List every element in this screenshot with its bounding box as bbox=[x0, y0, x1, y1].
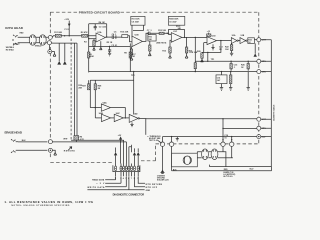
plug J1 read/write head bbox=[12, 35, 20, 46]
rail write head A bbox=[74, 43, 76, 136]
svg-text:(SEE TEXT): (SEE TEXT) bbox=[156, 43, 166, 45]
node interstage 3 bbox=[167, 33, 168, 34]
wire U1B fb right bbox=[133, 25, 143, 30]
svg-text:GND: GND bbox=[146, 190, 151, 192]
svg-text:20K: 20K bbox=[78, 88, 82, 90]
wire U3A to U3B bbox=[238, 40, 240, 42]
motor box bbox=[172, 153, 198, 167]
ground R25b bbox=[247, 72, 250, 91]
wire motor bottom terminal bbox=[197, 157, 201, 159]
callout record arrow bbox=[68, 147, 72, 151]
wire +5 drop U3 bbox=[254, 43, 256, 53]
svg-text:R1 100K: R1 100K bbox=[54, 32, 62, 34]
arrow chassis A bbox=[161, 170, 164, 173]
svg-text:1M: 1M bbox=[132, 56, 135, 58]
op-amp U1A feedback top wire bbox=[89, 23, 107, 25]
bracket +5V bbox=[105, 177, 121, 184]
wire shield on-board bbox=[51, 42, 77, 44]
svg-text:U1A: U1A bbox=[97, 31, 102, 34]
arrow conn 1 bbox=[114, 152, 117, 155]
ground R3 bbox=[93, 48, 96, 50]
node threshold b bbox=[231, 136, 232, 137]
wire write head bottom 1 bbox=[71, 140, 124, 163]
svg-text:U4D: U4D bbox=[133, 112, 138, 115]
ground chassis at input bbox=[52, 52, 56, 57]
wire U4C out bbox=[123, 117, 129, 119]
bracket READ DATA bbox=[105, 177, 115, 180]
node U4A input bbox=[95, 107, 96, 108]
wire threshold to pin bbox=[232, 136, 257, 138]
node C1 junction bbox=[64, 35, 65, 36]
node U1C out fb bbox=[184, 37, 185, 38]
svg-text:R11 150K: R11 150K bbox=[132, 19, 141, 21]
op-amp U1B bbox=[132, 36, 143, 47]
PCB dashed border top bbox=[50, 11, 258, 13]
arrow shield B bbox=[63, 61, 67, 65]
feedback box B1 top wire bbox=[89, 46, 131, 48]
connector pin stubs bbox=[116, 172, 139, 177]
arrow shield A bbox=[57, 61, 61, 65]
pin circle RD1 bbox=[257, 38, 261, 42]
crossing circle X4 bbox=[230, 142, 234, 146]
pin circle RD3 bbox=[257, 70, 261, 74]
resistor R27 hanging bbox=[88, 84, 90, 90]
node mid3 x223 bbox=[222, 139, 223, 140]
svg-text:CASSETTE CABLE: CASSETTE CABLE bbox=[272, 104, 275, 121]
ground C5 bbox=[108, 53, 111, 56]
svg-text:C8 .0047: C8 .0047 bbox=[132, 20, 139, 23]
wire x231 column bbox=[231, 137, 233, 158]
arrow conn 3 bbox=[137, 152, 140, 155]
wire U4A input bbox=[90, 107, 101, 109]
cable loom line bbox=[270, 40, 272, 167]
wire shield drop B bbox=[64, 43, 66, 61]
node U3 input bbox=[231, 40, 232, 41]
resistor R20 bbox=[202, 51, 204, 53]
node mid2 x223 bbox=[222, 128, 223, 129]
svg-text:86-7 PLUG: 86-7 PLUG bbox=[223, 176, 233, 178]
inverter U4B bbox=[102, 114, 111, 121]
resistor R25 column bbox=[247, 61, 249, 63]
bracket WRITE DATA bbox=[105, 177, 126, 187]
wire U1A output bbox=[105, 36, 112, 38]
pin numbers bbox=[115, 177, 139, 180]
svg-text:7: 7 bbox=[131, 178, 132, 180]
resistor R14 to ground bbox=[149, 45, 151, 51]
wire feedback left bbox=[88, 24, 90, 73]
ground R9 bbox=[130, 58, 133, 61]
svg-text:R4 1M: R4 1M bbox=[99, 21, 105, 24]
wire shield pin down bbox=[49, 45, 51, 50]
resistor R6 bbox=[74, 136, 79, 141]
resistor R22 bbox=[230, 45, 232, 51]
resistor R10 bbox=[122, 35, 128, 38]
wire U1C minus bbox=[169, 33, 172, 35]
pin sockets bbox=[115, 166, 140, 171]
svg-text:U1D: U1D bbox=[212, 35, 217, 37]
crossing circle X3 bbox=[221, 142, 225, 146]
svg-text:10K: 10K bbox=[225, 49, 229, 51]
ground U4D bbox=[130, 122, 133, 126]
wire RD long to pin bbox=[140, 117, 257, 119]
svg-text:TEXT 5-24: TEXT 5-24 bbox=[149, 139, 158, 142]
inverter U4A bbox=[101, 104, 110, 111]
wire U4B out bbox=[111, 117, 115, 119]
wire +5V column bbox=[120, 140, 122, 164]
node mid x223 bbox=[222, 118, 223, 119]
connector oval M1 bbox=[202, 149, 209, 160]
connector oval P2 bbox=[39, 35, 46, 45]
wire mid column x223 bbox=[222, 119, 224, 142]
wire U2 input bbox=[217, 40, 232, 42]
ground R26 bbox=[229, 88, 232, 91]
PCB dashed border bottom step bbox=[155, 144, 157, 161]
wire U4B input bbox=[95, 117, 101, 119]
svg-text:C2 .022: C2 .022 bbox=[99, 26, 107, 28]
wire delay leads bbox=[221, 72, 223, 88]
wire U1C plus leg bbox=[170, 40, 171, 47]
pin circle RD2 bbox=[257, 59, 261, 63]
inverter U4D bbox=[129, 114, 138, 122]
wire R9 leads bbox=[131, 46, 133, 57]
buffer U3A bbox=[231, 38, 237, 44]
crossing circle X2 bbox=[169, 142, 173, 146]
resistor R28 hanging bbox=[94, 84, 96, 90]
wire conn drop e bbox=[128, 147, 130, 164]
wire motor right bottom bbox=[218, 157, 233, 159]
wire X1 down bbox=[162, 146, 164, 170]
node C5 bbox=[109, 46, 110, 47]
bracket MTR OFF bbox=[135, 177, 146, 187]
wire motor return long bbox=[210, 166, 272, 168]
node threshold a bbox=[171, 136, 172, 137]
wire U1D fb loop bbox=[204, 41, 221, 53]
resistor R19 bbox=[207, 34, 211, 37]
node +12V junction bbox=[69, 35, 70, 36]
pin circle MTR3 bbox=[257, 135, 261, 139]
pin circle MTR2 bbox=[257, 126, 261, 130]
wire to U1B plus bbox=[128, 36, 132, 42]
PCB dashed border bottom-right bbox=[156, 143, 259, 145]
wire erase gnd bbox=[52, 150, 55, 152]
wire interstage 1 bbox=[116, 36, 122, 38]
resistor R3 bbox=[93, 41, 95, 47]
wire R12 to U1C bbox=[164, 33, 171, 34]
capacitor C5 bbox=[108, 47, 111, 54]
wire write head bottom 2 bbox=[125, 142, 127, 164]
node row2 c bbox=[248, 61, 249, 62]
wire U1B fb left bbox=[131, 25, 133, 37]
PCB dashed border left bbox=[49, 12, 51, 159]
connector body bbox=[113, 165, 140, 171]
resistor R12 bbox=[159, 32, 164, 34]
wire U1C output bbox=[182, 36, 207, 38]
svg-text:ERASE HEAD: ERASE HEAD bbox=[5, 131, 23, 135]
capacitor C2 bbox=[94, 24, 97, 31]
wire U1D to row2 bbox=[207, 52, 209, 61]
PCB dashed border bottom-left bbox=[50, 161, 112, 163]
wire motor right top bbox=[218, 152, 226, 167]
node U4 row bbox=[125, 117, 126, 118]
wire U4A out loop bbox=[111, 108, 126, 118]
svg-text:R5 1K: R5 1K bbox=[107, 42, 113, 44]
wire R16 leads bbox=[186, 37, 188, 55]
node U2 input bbox=[220, 40, 221, 41]
svg-text:MTR OFF: MTR OFF bbox=[146, 187, 158, 189]
svg-text:C9 .0047: C9 .0047 bbox=[169, 20, 176, 23]
bracket GND long bbox=[87, 177, 144, 190]
node minus bbox=[88, 38, 89, 39]
bracket MTR RETURN bbox=[138, 177, 145, 184]
ground threshold bbox=[176, 137, 179, 141]
svg-text:+12V: +12V bbox=[64, 19, 69, 21]
resistor R9 to ground bbox=[130, 49, 132, 55]
box gain adjust bbox=[148, 35, 156, 41]
record box right column bbox=[133, 72, 135, 115]
ground R13 bbox=[169, 56, 172, 59]
pin circle ground bbox=[48, 50, 52, 54]
ground erase bbox=[54, 153, 57, 156]
ground delay bbox=[220, 88, 223, 91]
wire motor gnd long bbox=[172, 167, 272, 171]
feedback box B1 bottom wire bbox=[89, 71, 257, 73]
wire erase bottom bbox=[18, 149, 47, 151]
wire R3 leads bbox=[93, 39, 95, 48]
svg-text:SHIELD: SHIELD bbox=[35, 46, 42, 48]
rail write head B bbox=[76, 43, 78, 136]
wire RD row2 bbox=[195, 60, 256, 62]
wire U1A minus input bbox=[89, 38, 96, 40]
wire head top bbox=[20, 36, 96, 38]
resistor R16 to ground bbox=[185, 47, 187, 53]
svg-text:R2 47K: R2 47K bbox=[81, 31, 88, 34]
resistor R8 on left column bbox=[88, 52, 90, 58]
svg-text:SOLDER LUG: SOLDER LUG bbox=[157, 180, 169, 182]
box output network bbox=[248, 38, 255, 44]
record box left column bbox=[89, 80, 91, 107]
edge connector pins bbox=[116, 164, 139, 166]
svg-text:R11B 150K: R11B 150K bbox=[169, 19, 179, 21]
op-amp U1D bbox=[207, 37, 217, 45]
plug J2 erase head bbox=[11, 139, 18, 153]
svg-text:U1B: U1B bbox=[135, 34, 140, 36]
buffer U3B bbox=[240, 38, 246, 44]
svg-text:.047: .047 bbox=[217, 79, 221, 82]
wire motor mid bbox=[208, 152, 211, 158]
svg-text:RECORD: RECORD bbox=[64, 150, 76, 152]
arrow +5V conn bbox=[119, 136, 122, 139]
wire R18 column bbox=[194, 37, 196, 71]
node +5V column bbox=[120, 141, 121, 142]
connector oval P1 bbox=[29, 35, 36, 45]
node interstage 2 bbox=[147, 33, 148, 34]
wire B1 right column bbox=[129, 43, 131, 71]
ground R14 bbox=[148, 53, 151, 56]
pin circle erase 1 bbox=[48, 140, 52, 144]
resistor R26 column bbox=[230, 72, 232, 75]
PCB dashed border connector notch bbox=[141, 160, 156, 162]
wire R13 lower lead bbox=[169, 53, 171, 56]
svg-text:R12 10K: R12 10K bbox=[158, 30, 166, 32]
capacitor C4 bbox=[112, 35, 116, 39]
box feedback U1B bbox=[131, 16, 145, 25]
svg-text:DIAGNOSTIC CONNECTOR: DIAGNOSTIC CONNECTOR bbox=[113, 192, 145, 196]
resistor C15 column bbox=[230, 61, 232, 63]
svg-text:1M: 1M bbox=[219, 49, 222, 51]
svg-text:4: 4 bbox=[123, 177, 124, 180]
svg-text:READ DATA: READ DATA bbox=[92, 179, 105, 182]
wire erase top bbox=[18, 141, 47, 143]
svg-text:C14: C14 bbox=[217, 76, 220, 79]
wire threshold box drop bbox=[145, 119, 147, 135]
wire head shield bbox=[20, 42, 47, 44]
wire x223 below bbox=[222, 146, 224, 152]
capacitor C6 bbox=[115, 35, 117, 39]
svg-text:U4A: U4A bbox=[103, 102, 108, 105]
op-amp U1A bbox=[96, 33, 105, 42]
wire row pin MTR1 bbox=[223, 127, 257, 129]
wire U1A bias below bbox=[100, 41, 102, 47]
svg-text:1. ALL RESISTANCE VALUES IN O: 1. ALL RESISTANCE VALUES IN OHMS, 1/4W ±… bbox=[4, 200, 93, 204]
pin circle shield at board edge bbox=[47, 41, 51, 45]
wire +12V feed bbox=[68, 21, 70, 36]
node R18 top bbox=[195, 37, 196, 38]
svg-text:U1C: U1C bbox=[173, 31, 178, 33]
capacitor C7 bbox=[149, 32, 159, 36]
ground R5 bbox=[100, 47, 103, 49]
node x231 bbox=[231, 139, 232, 140]
svg-text:R10 22K: R10 22K bbox=[120, 31, 128, 33]
node delay bbox=[221, 71, 222, 72]
bracket write pair bbox=[129, 145, 132, 147]
wire shield drop A bbox=[58, 43, 60, 61]
wire +12 feed stage4 bbox=[208, 33, 210, 34]
wire U1B output jog bbox=[143, 33, 148, 41]
svg-text:U4C: U4C bbox=[116, 112, 121, 115]
wire feedback right bbox=[106, 24, 108, 37]
wire R22 leads bbox=[231, 41, 233, 54]
arrow +5V U3 bbox=[254, 53, 257, 56]
svg-text:RD SHLD: RD SHLD bbox=[6, 50, 15, 52]
node row3 a bbox=[195, 71, 196, 72]
resistor R18 bbox=[194, 63, 196, 69]
rail write data dashed bbox=[70, 39, 72, 141]
node TP2 bbox=[133, 71, 134, 72]
motor symbol bbox=[183, 156, 191, 164]
wire pot drop A bbox=[162, 137, 164, 142]
wire threshold row bbox=[163, 136, 232, 138]
wire erase on-board bbox=[52, 141, 126, 143]
svg-text:WRITE DATA: WRITE DATA bbox=[87, 186, 105, 189]
resistor R17 on right column bbox=[129, 52, 131, 58]
PCB dashed border right bbox=[258, 12, 260, 144]
node row2 a bbox=[207, 61, 208, 62]
op-amp U1C bbox=[171, 33, 182, 43]
wire pot drop B bbox=[171, 137, 173, 142]
wire to pin RD bbox=[254, 39, 256, 41]
svg-text:MTR RETURN: MTR RETURN bbox=[146, 184, 163, 186]
svg-text:R18 10K: R18 10K bbox=[189, 52, 197, 54]
svg-text:NOTES: UNLESS OTHERWISE SPECIF: NOTES: UNLESS OTHERWISE SPECIFIED bbox=[11, 205, 69, 207]
node output U1A bbox=[106, 36, 107, 37]
wire motor stub bbox=[209, 165, 211, 167]
svg-text:R/PH HEAD: R/PH HEAD bbox=[5, 26, 23, 30]
wire conn drop f bbox=[131, 147, 133, 152]
wire X2 down bbox=[171, 146, 173, 170]
arrow callout bbox=[158, 141, 161, 144]
resistor R1 bbox=[55, 34, 61, 37]
box feedback U1C bbox=[168, 16, 184, 25]
ground U1D bbox=[211, 44, 214, 50]
svg-text:PRINTED-CIRCUIT BOARD: PRINTED-CIRCUIT BOARD bbox=[79, 11, 121, 15]
wire U1C fb lower bbox=[169, 29, 185, 37]
svg-text:SHIELD: SHIELD bbox=[13, 43, 20, 45]
wire motor top bbox=[197, 152, 201, 153]
ground R20 bbox=[201, 60, 204, 62]
node row2 b bbox=[230, 61, 231, 62]
inverter U4C bbox=[114, 114, 123, 121]
pin circle erase 2 bbox=[48, 148, 52, 152]
pin circle MTR1 bbox=[257, 117, 261, 121]
resistor R2 bbox=[82, 34, 88, 37]
box delay network bbox=[216, 75, 227, 84]
pin circle signal at board edge bbox=[48, 35, 52, 39]
svg-text:C5 .01: C5 .01 bbox=[111, 45, 118, 47]
wire R14 leads bbox=[149, 41, 151, 53]
svg-text:680K: 680K bbox=[89, 56, 94, 58]
node row3 b bbox=[230, 71, 231, 72]
wire conn drop arrow1 bbox=[115, 148, 117, 153]
ground R22 bbox=[230, 53, 233, 56]
connector oval M2 bbox=[211, 149, 218, 160]
resistor R13 to ground bbox=[169, 47, 171, 53]
crossing circle X1 bbox=[160, 142, 164, 146]
record box top wire bbox=[90, 79, 133, 81]
arrow conn 2 bbox=[133, 152, 136, 155]
ground R16 bbox=[185, 56, 188, 59]
cable wires to loom bbox=[261, 40, 272, 137]
